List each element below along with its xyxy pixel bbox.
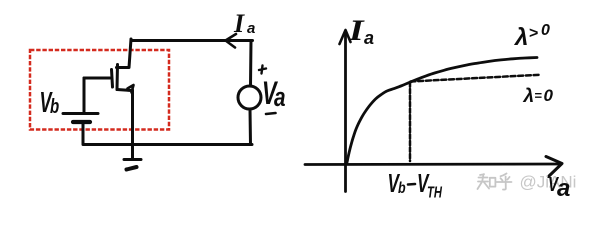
svg-text:TH: TH — [427, 182, 443, 201]
svg-text:a: a — [557, 175, 570, 202]
svg-text:b: b — [50, 95, 59, 118]
svg-text:a: a — [364, 28, 374, 48]
svg-text:>: > — [529, 25, 538, 42]
svg-text:0: 0 — [544, 86, 554, 105]
svg-text:a: a — [274, 83, 286, 112]
svg-text:0: 0 — [541, 22, 550, 39]
svg-text:b: b — [398, 180, 406, 198]
svg-text:I: I — [233, 9, 245, 38]
svg-text:I: I — [348, 14, 366, 47]
svg-text:λ: λ — [523, 86, 535, 107]
svg-text:=: = — [535, 88, 543, 103]
svg-text:λ: λ — [513, 24, 528, 51]
svg-text:a: a — [247, 20, 255, 37]
